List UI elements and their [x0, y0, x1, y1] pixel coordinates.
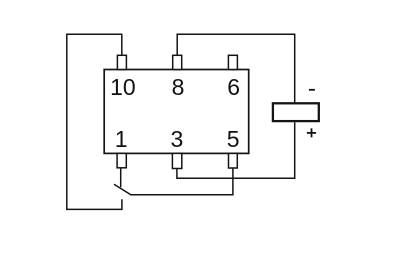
- pin 1 stub: [117, 153, 126, 167]
- battery BT1 body: [273, 103, 319, 121]
- svg-text:10: 10: [110, 74, 136, 100]
- svg-text:1: 1: [115, 126, 128, 152]
- pin 5 stub: [229, 153, 238, 168]
- wire pin5 down, left to switch pivot: [131, 168, 233, 195]
- pin 6 stub: [228, 55, 237, 69]
- switch blade S1: [114, 184, 131, 195]
- wire pin8 up, right, down to battery negative: [177, 34, 295, 102]
- wire pin10 to top-left corner, down left side, to switch bottom terminal: [67, 34, 122, 209]
- pin 8 stub: [173, 55, 182, 69]
- svg-text:5: 5: [227, 126, 240, 152]
- battery negative label -: [309, 89, 315, 91]
- pin 3 stub: [172, 153, 181, 168]
- IC U1 body: [104, 70, 249, 154]
- svg-text:3: 3: [171, 126, 184, 152]
- wire battery positive down, left, up to pin3: [177, 122, 295, 178]
- svg-text:6: 6: [227, 74, 240, 100]
- svg-text:8: 8: [172, 74, 185, 100]
- pin 10 stub: [117, 55, 126, 69]
- wire pin1 down to switch contact: [120, 168, 122, 187]
- battery positive label +: [307, 128, 316, 137]
